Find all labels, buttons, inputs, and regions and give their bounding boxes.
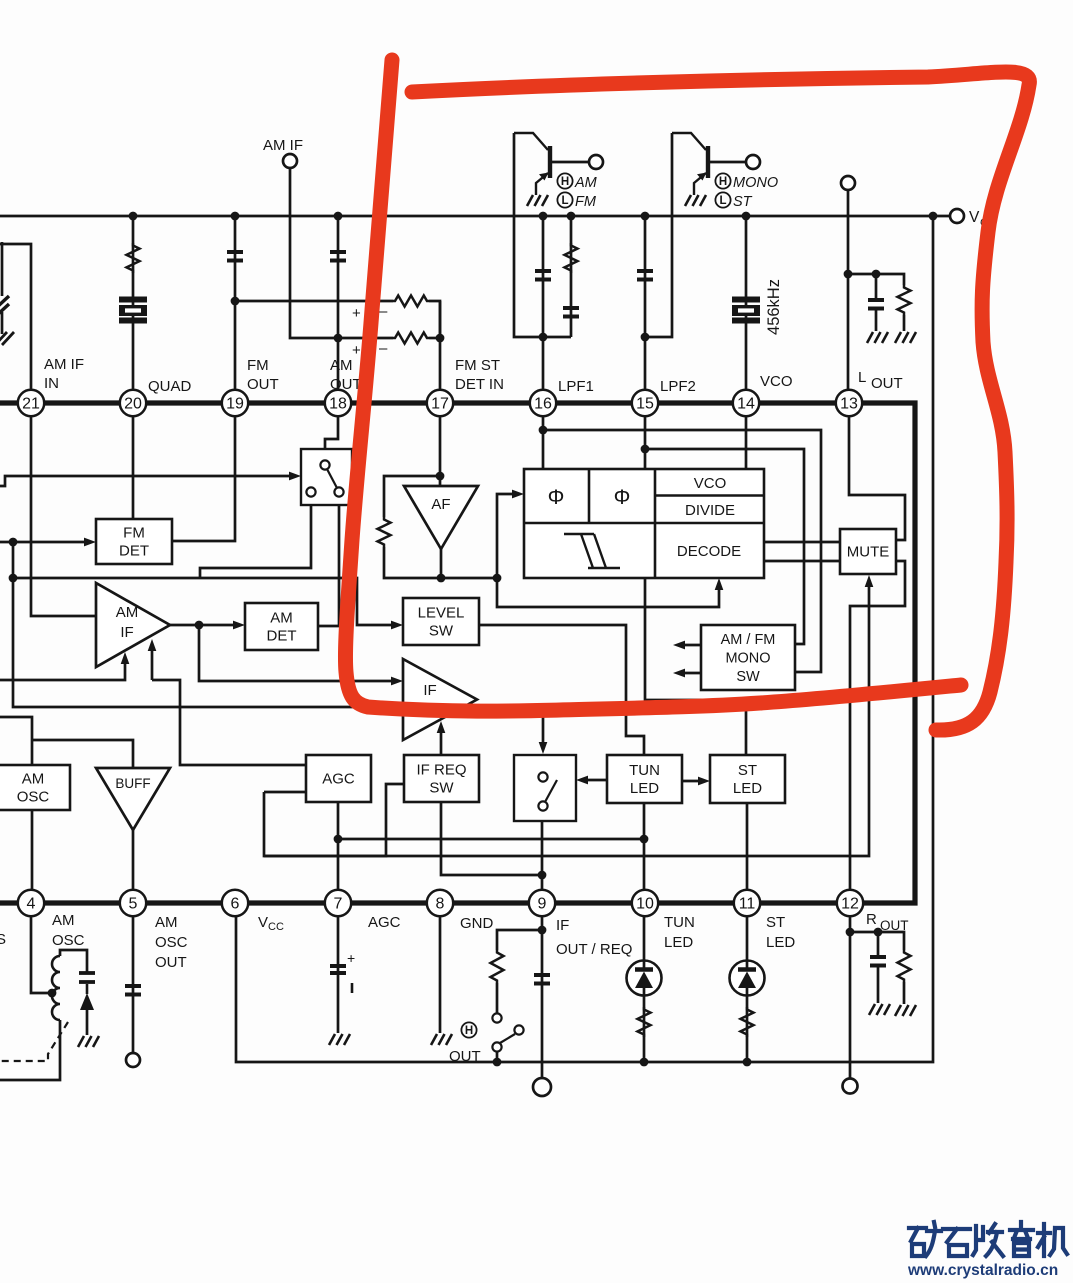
wire Q1 frame to LPF1 node [514, 133, 571, 337]
amp BUFF [96, 768, 170, 830]
resistor L OUT [898, 285, 911, 315]
svg-text:FM: FM [575, 194, 597, 210]
junction VCC bus right [929, 212, 938, 221]
wire pin13 to MUTE [849, 416, 905, 540]
wire H OUT switch to VCC line [496, 1052, 499, 1062]
junction ST LED/VCC line [743, 1058, 752, 1067]
amp IF [403, 659, 477, 740]
wire TUN LED to pin9 switch [580, 779, 607, 782]
node pin18/AM IF/resistor row2 [334, 334, 343, 343]
pin 8 [427, 890, 453, 916]
wire left-edge cropped component [1, 242, 4, 296]
symbol circled-H (MONO) [715, 173, 730, 188]
ground (left edge) [0, 332, 7, 345]
svg-text:IF: IF [556, 917, 569, 934]
wire switch throw A to rail [200, 496, 311, 578]
wire Q2 collector to terminal [710, 161, 746, 164]
ground L OUT cap [867, 332, 888, 343]
ground Q1 emitter [527, 195, 548, 206]
svg-text:H: H [561, 176, 569, 188]
svg-text:OSC: OSC [17, 789, 50, 806]
svg-text:+: + [352, 342, 361, 359]
pin 11 [734, 890, 760, 916]
wire pin9 switch to pin9 [541, 821, 544, 903]
wire coil bottom to left [0, 1020, 60, 1080]
svg-text:8: 8 [436, 896, 445, 913]
svg-text:LPF1: LPF1 [558, 378, 594, 395]
svg-text:V: V [969, 209, 980, 226]
transistor Q1 (H AM / L FM output) [514, 133, 550, 195]
junction pin12 [846, 928, 855, 937]
pin 19 [222, 390, 248, 416]
block AM/FM MONO SW [701, 625, 795, 690]
svg-text:13: 13 [840, 396, 858, 413]
block ST LED [710, 755, 785, 803]
block IF REQ SW [404, 755, 479, 802]
arrow AGC into AM IF [121, 652, 130, 664]
node rows to pin17 [436, 334, 445, 343]
svg-text:14: 14 [737, 396, 755, 413]
wire AF apex [440, 549, 443, 578]
svg-text:LED: LED [766, 934, 795, 951]
wire pin12 branch [849, 917, 852, 1079]
svg-text:5: 5 [129, 896, 138, 913]
wire: VCC top bus [0, 215, 950, 218]
capacitor LPF2 [637, 271, 653, 280]
junction AM IF output [195, 621, 204, 630]
arrow into pin9 switch box [576, 776, 588, 785]
wire pin18 to switch common [325, 416, 338, 461]
svg-text:FM: FM [123, 525, 145, 542]
junction AF input [436, 472, 445, 481]
wire composite rail to LEVEL SW [13, 578, 399, 625]
symbol hysteresis [564, 534, 620, 568]
svg-text:AM: AM [270, 610, 293, 627]
svg-text:11: 11 [739, 896, 756, 913]
svg-text:10: 10 [636, 896, 654, 913]
capacitor LPF1 lower [563, 308, 579, 317]
wire MUTE to pin12 [850, 561, 905, 903]
svg-text:IF REQ: IF REQ [416, 762, 466, 779]
wire node to pin17 [439, 301, 442, 403]
svg-text:OSC: OSC [52, 932, 85, 949]
wire pin21 from left edge [0, 244, 31, 403]
svg-text:DET: DET [267, 628, 297, 645]
wire resistor row2 right [429, 337, 440, 340]
wire pin9 branch [541, 917, 544, 1079]
svg-text:15: 15 [636, 396, 654, 413]
wire pin17 to AF amp [439, 416, 442, 486]
terminal VCC [950, 209, 964, 223]
svg-text:VCO: VCO [760, 373, 793, 390]
capacitor (FM OUT) [227, 252, 243, 261]
block AM DET [245, 603, 318, 650]
svg-text:Φ: Φ [614, 486, 631, 509]
ground Q2 emitter [685, 195, 706, 206]
transistor Q2 (H MONO / L ST output) [672, 133, 708, 195]
wire DECODE to ST LED [645, 578, 746, 755]
svg-text:L: L [561, 195, 568, 207]
pin 14 [733, 390, 759, 416]
resistor (QUAD) [127, 243, 140, 273]
resistor R OUT [898, 950, 911, 982]
svg-text:OUT: OUT [155, 954, 187, 971]
wire AGC riser 2 [151, 643, 154, 680]
svg-text:LPF2: LPF2 [660, 378, 696, 395]
resistor H OUT [491, 950, 504, 983]
wire BUFF out to pin5 [132, 830, 135, 903]
arrow AM/FM SW out 1 [673, 641, 685, 650]
junction TUN LED/VCC line [640, 1058, 649, 1067]
terminal AM IF [283, 154, 297, 168]
svg-text:L: L [719, 195, 726, 207]
svg-text:AGC: AGC [368, 914, 401, 931]
arrow into MUTE [865, 575, 874, 587]
wire pin8 branch [439, 917, 442, 1033]
svg-text:AGC: AGC [322, 771, 355, 788]
wire ST LED to pin11 [746, 803, 749, 903]
pin 12 [837, 890, 863, 916]
svg-text:LEVEL: LEVEL [418, 605, 465, 622]
svg-text:DET: DET [119, 543, 149, 560]
ground pin7 [329, 1034, 350, 1045]
dashed tuning gang link [0, 1022, 68, 1061]
svg-text:OUT: OUT [247, 376, 279, 393]
wire pin15 to AM/FM SW [645, 449, 804, 644]
wire pin20 to FM DET [132, 416, 135, 519]
pin 17 [427, 390, 453, 416]
symbol circled-L (ST) [715, 192, 730, 207]
terminal AM OSC OUT [126, 1053, 140, 1067]
svg-text:17: 17 [431, 396, 449, 413]
svg-text:S: S [0, 931, 6, 948]
svg-text:AM IF: AM IF [263, 137, 303, 154]
pin 16 [530, 390, 556, 416]
capacitor (AM OUT) [330, 252, 346, 261]
ground L OUT resistor [895, 332, 916, 343]
pin 21 [18, 390, 44, 416]
svg-text:7: 7 [334, 896, 343, 913]
wire AF feedback top [384, 476, 440, 517]
svg-text:MUTE: MUTE [847, 544, 890, 561]
watermark logo (crystalradio) [909, 1222, 1067, 1256]
junction pin16 branch [539, 426, 548, 435]
svg-text:ST: ST [738, 762, 757, 779]
amp AM IF [96, 583, 170, 667]
junction VCC bus LPF2 [641, 212, 650, 221]
svg-text:+: + [352, 305, 361, 322]
junction on VCC bus (pin20 branch) [129, 212, 138, 221]
capacitor R OUT [870, 957, 886, 966]
wire DECODE to MUTE lower [764, 560, 840, 563]
svg-text:21: 21 [22, 396, 40, 413]
arrow into LEVEL SW [391, 621, 403, 630]
svg-text:IN: IN [44, 375, 59, 392]
svg-text:GND: GND [460, 915, 494, 932]
wire pin18 branch [337, 216, 340, 403]
wire VCO branch [745, 216, 748, 403]
wire AGC line 1 [0, 656, 125, 680]
junction pin4/coil [48, 989, 57, 998]
svg-text:LED: LED [664, 934, 693, 951]
svg-text:IF: IF [423, 682, 436, 699]
junction LPF2 node [641, 333, 650, 342]
arrow into AM DET [233, 621, 245, 630]
wire AF feedback bottom rail [384, 547, 497, 578]
pin 10 [632, 890, 658, 916]
switch S1 (pin18 FM/AM select) [301, 449, 352, 505]
wire Q2 frame to LPF2 node [645, 133, 672, 337]
wire VCC return to pin 6 [236, 216, 933, 1062]
wire TUN LED to pin10 [643, 803, 646, 903]
svg-text:DECODE: DECODE [677, 543, 741, 560]
svg-text:9: 9 [538, 896, 547, 913]
wire AM OSC block to pin4 [31, 810, 34, 903]
block MUTE [840, 529, 896, 574]
svg-text:VCO: VCO [694, 475, 727, 492]
annotation red marker stroke B (left+bottom) [345, 60, 961, 711]
pin 6 [222, 890, 248, 916]
wire LPF1 RC branch [570, 216, 573, 337]
wire to DECODE input [497, 578, 719, 607]
wire resistor row1 left [235, 300, 393, 303]
svg-text:AM: AM [22, 771, 45, 788]
wire R OUT RC [850, 932, 904, 950]
junction pin9/IF REQ [538, 871, 547, 880]
svg-text:H: H [719, 176, 727, 188]
terminal IF OUT [533, 1078, 551, 1096]
wire AGC to TUN LED line [338, 838, 645, 841]
svg-text:H: H [465, 1025, 473, 1037]
junction R OUT cap [874, 928, 883, 937]
svg-text:IF: IF [120, 624, 133, 641]
resistor TUN LED [638, 1007, 651, 1037]
varactor D1 (tuning cap) [79, 973, 95, 1010]
terminal Q2 output [746, 155, 760, 169]
svg-text:AM IF: AM IF [44, 356, 84, 373]
wire LPF1 cap branch [542, 216, 545, 403]
arrow into pin9 switch [539, 742, 548, 754]
svg-text:456kHz: 456kHz [765, 279, 783, 335]
svg-text:QUAD: QUAD [148, 378, 192, 395]
wire tank top [60, 950, 87, 973]
wire switch throw B to AM DET out [318, 496, 339, 626]
svg-text:SW: SW [429, 623, 454, 640]
junction AF output [437, 574, 446, 583]
node pin19/resistor row1 [231, 297, 240, 306]
wire resistor row1 right [429, 301, 440, 338]
wire AGC block to pin7 [337, 802, 340, 903]
svg-text:OUT / REQ: OUT / REQ [556, 941, 632, 958]
arrow into phase det 1 [512, 490, 524, 499]
svg-text:12: 12 [841, 896, 859, 913]
arrow into DECODE [715, 578, 724, 590]
svg-text:FM ST: FM ST [455, 357, 500, 374]
wire pin21 to AM IF amp [31, 416, 96, 616]
svg-text:AM: AM [330, 357, 353, 374]
svg-text:16: 16 [534, 396, 552, 413]
block AM OSC [0, 765, 70, 810]
resistor LPF1 [565, 243, 578, 273]
svg-text:AM: AM [116, 604, 139, 621]
terminal R OUT [843, 1079, 858, 1094]
svg-text:AM: AM [52, 912, 75, 929]
capacitor L OUT [868, 300, 884, 309]
svg-text:SW: SW [429, 780, 454, 797]
wire LEVEL SW to TUN LED [479, 625, 644, 755]
pin 15 [632, 390, 658, 416]
wire FM DET input line [0, 541, 92, 544]
wire pin7 branch [337, 917, 340, 1033]
svg-text:V: V [258, 914, 268, 931]
wire AM/FM SW out 1 [677, 644, 701, 647]
wire pin9 to H OUT switch [497, 930, 542, 950]
svg-text:–: – [379, 303, 388, 320]
svg-text:DIVIDE: DIVIDE [685, 502, 735, 519]
wire AGC second input [264, 791, 306, 794]
junction pin15 branch [641, 445, 650, 454]
wire L OUT RC top [848, 274, 904, 285]
wire varactor to ground [86, 1010, 89, 1035]
ground R OUT cap [869, 1004, 890, 1015]
svg-text:MONO: MONO [733, 175, 778, 191]
svg-text:AF: AF [431, 496, 450, 513]
block TUN LED [607, 755, 682, 803]
terminal L OUT [841, 176, 855, 190]
wire FM IF input to switch [0, 476, 297, 486]
ceramic resonator 456kHz [732, 300, 760, 321]
svg-text:MONO: MONO [725, 651, 770, 667]
wire DECODE to MUTE upper [764, 541, 840, 544]
svg-text:Φ: Φ [548, 486, 565, 509]
amp AF [404, 486, 478, 549]
junction H OUT/VCC line [493, 1058, 502, 1067]
svg-text:LED: LED [630, 780, 659, 797]
svg-text:19: 19 [226, 396, 244, 413]
svg-text:L: L [858, 369, 866, 386]
node on composite rail [9, 574, 18, 583]
junction AGC/pin7 [334, 835, 343, 844]
junction L OUT RC [844, 270, 853, 279]
wire pin14 to VCO [745, 416, 748, 469]
resistor ST LED [741, 1007, 754, 1037]
ground varactor [78, 1036, 99, 1047]
svg-text:ST: ST [766, 914, 785, 931]
block PLL (phase det / VCO / DIVIDE / DECODE) [524, 469, 764, 578]
svg-text:BUFF: BUFF [115, 776, 150, 791]
junction LPF1 node [539, 333, 548, 342]
svg-text:18: 18 [329, 396, 347, 413]
svg-text:OUT: OUT [871, 375, 903, 392]
pin 7 [325, 890, 351, 916]
arrow into ST LED [698, 777, 710, 786]
svg-text:OUT: OUT [449, 1048, 481, 1065]
block FM DET [96, 519, 172, 564]
wire mute drive line [264, 580, 869, 856]
wire to L OUT cap [875, 274, 878, 300]
symbol circled-H (AM) [557, 173, 572, 188]
arrow AGC2 into AM IF [148, 639, 157, 651]
pin 4 [18, 890, 44, 916]
capacitor IF OUT [534, 975, 550, 984]
junction TUN LED line [640, 835, 649, 844]
LED D2 (TUN) [643, 917, 646, 1062]
resistor row1 [393, 296, 429, 307]
node A (FM det input) [9, 538, 18, 547]
junction VCC bus VCO [742, 212, 751, 221]
ceramic resonator (QUAD) [119, 300, 147, 321]
wire pin20 branch [132, 216, 135, 403]
arrow AM/FM SW out 2 [673, 669, 685, 678]
svg-text:DET IN: DET IN [455, 376, 504, 393]
wire TUN LED to ST LED [682, 780, 706, 783]
wire AM IF terminal to node 18 [290, 168, 338, 338]
wire AM OSC to BUFF [32, 740, 133, 768]
wire AF out to phase det [497, 494, 519, 578]
svg-text:TUN: TUN [629, 762, 660, 779]
wire L OUT terminal to pin13 [847, 190, 850, 403]
wire node A down to IF rail [13, 542, 543, 707]
wire pin19 branch [234, 216, 237, 403]
svg-text:TUN: TUN [664, 914, 695, 931]
svg-text:20: 20 [124, 396, 142, 413]
wire AGC loop to IF REQ SW [264, 784, 404, 856]
wire pin16 to phase det 1 [542, 416, 545, 469]
block AGC [306, 755, 371, 802]
svg-text:4: 4 [27, 896, 36, 913]
arrow into FM DET [84, 538, 96, 547]
arrow into pin18 switch [289, 472, 301, 481]
LED D3 (ST) [746, 917, 749, 1062]
wire pin16 to AM/FM SW [543, 430, 821, 672]
ground R OUT resistor [895, 1005, 916, 1016]
terminal Q1 output [589, 155, 603, 169]
annotation red marker stroke A (top+right) [412, 72, 1029, 730]
wire pin5 branch [132, 917, 135, 1053]
label - electrolytic [351, 983, 354, 993]
svg-text:R: R [866, 911, 877, 928]
svg-text:OSC: OSC [155, 934, 188, 951]
wire to AM OSC block [0, 717, 32, 765]
wire Q1 collector to terminal [552, 161, 589, 164]
arrow into IF amp [391, 677, 403, 686]
wire AGC line 2 to AGC block [152, 680, 306, 765]
svg-text:AM: AM [574, 175, 598, 191]
wire AM IF out to AM DET [170, 624, 240, 627]
svg-text:OUT: OUT [880, 918, 909, 933]
svg-text:www.crystalradio.cn: www.crystalradio.cn [907, 1262, 1058, 1279]
pin 5 [120, 890, 146, 916]
IC body outline (pin bus) [0, 403, 915, 903]
wire IF REQ SW to pin9 [441, 802, 542, 875]
pin 18 [325, 390, 351, 416]
svg-text:OUT: OUT [330, 376, 362, 393]
junction VCC bus LPF1 cap [539, 212, 548, 221]
pin 9 [529, 890, 555, 916]
capacitor (cropped, left edge) [0, 296, 9, 308]
svg-text:AM: AM [155, 914, 178, 931]
block LEVEL SW [403, 598, 479, 645]
junction on VCC bus (pin18 branch) [334, 212, 343, 221]
capacitor LPF1 [535, 271, 551, 280]
svg-text:SW: SW [736, 669, 760, 685]
pin 13 [836, 390, 862, 416]
wire pin15 to phase det 2 [644, 416, 647, 469]
wire AM IF out to IF amp [199, 625, 394, 681]
resistor row2 [393, 333, 429, 344]
svg-text:+: + [347, 950, 355, 966]
inductor L1 (AM OSC coil) [52, 956, 60, 1020]
